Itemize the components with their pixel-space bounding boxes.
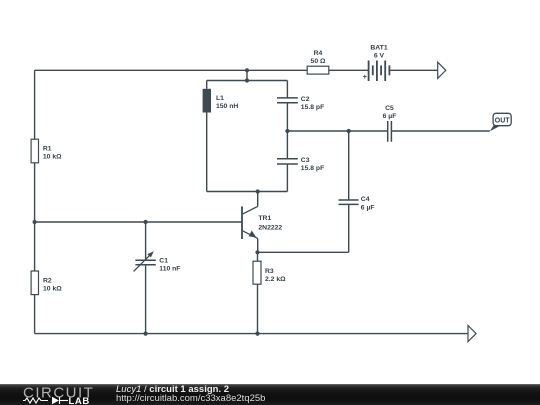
wire top rail (35, 69, 308, 71)
wire C4 riser (348, 131, 350, 200)
wire R3 top lead (257, 252, 259, 261)
wire C1 upper stub (145, 222, 147, 260)
svg-text:R1: R1 (43, 145, 52, 152)
svg-text:150 nH: 150 nH (216, 103, 238, 110)
wire emitter stub (257, 238, 259, 252)
junction top rail / tank (245, 68, 249, 72)
capacitor C3 (277, 157, 324, 172)
svg-text:C4: C4 (361, 196, 370, 203)
wire left rail upper (34, 70, 36, 139)
junction R3 bottom rail (255, 332, 259, 336)
wire collector stub (257, 192, 259, 207)
wire C2 bottom stub (286, 103, 288, 131)
wire battery to flag (389, 69, 437, 71)
svg-text:C5: C5 (385, 105, 394, 112)
resistor R3 (253, 261, 286, 284)
svg-text:6 µF: 6 µF (361, 204, 375, 211)
svg-text:BAT1: BAT1 (370, 45, 387, 52)
svg-text:C1: C1 (159, 257, 168, 264)
resistor R4 (307, 50, 329, 74)
svg-text:15.8 pF: 15.8 pF (301, 165, 324, 172)
junction emitter return (255, 250, 259, 254)
wire L1 bottom stub (206, 113, 208, 192)
svg-text:6 V: 6 V (374, 53, 385, 60)
junction C1 bottom rail (144, 332, 148, 336)
battery BAT1 (363, 45, 390, 81)
svg-text:+: + (363, 72, 368, 81)
wire emitter return (258, 251, 349, 253)
transistor TR1 (242, 206, 282, 239)
svg-text:R3: R3 (265, 268, 274, 275)
junction tank top (245, 78, 249, 82)
svg-text:10 kΩ: 10 kΩ (43, 286, 62, 293)
svg-text:2N2222: 2N2222 (258, 224, 282, 231)
wire tank bottom (207, 191, 288, 193)
svg-text:OUT: OUT (495, 117, 511, 124)
resistor R2 (31, 271, 62, 295)
wire C1 lower stub (145, 265, 147, 334)
wire C4 lower stub (348, 204, 350, 252)
wire left rail middle (34, 163, 36, 271)
svg-text:C3: C3 (301, 157, 310, 164)
junction left rail base (33, 220, 37, 224)
variable capacitor C1 (134, 251, 181, 272)
svg-text:TR1: TR1 (258, 215, 271, 222)
inductor L1 (203, 89, 239, 113)
capacitor C5 (383, 105, 397, 142)
svg-text:C2: C2 (301, 96, 310, 103)
svg-text:10 kΩ: 10 kΩ (43, 153, 62, 160)
wire tank feed stub (246, 70, 248, 80)
svg-text:LAB: LAB (69, 396, 90, 405)
junction C1 base (144, 220, 148, 224)
svg-text:15.8 pF: 15.8 pF (301, 104, 324, 111)
wire C3 top stub (286, 131, 288, 159)
node flag bottom right (468, 326, 476, 342)
svg-text:6 µF: 6 µF (383, 113, 397, 120)
svg-text:L1: L1 (216, 95, 224, 102)
svg-text:R4: R4 (314, 50, 323, 57)
wire bottom rail (35, 333, 468, 335)
node OUT flag (490, 113, 511, 131)
wire R3 bottom lead (257, 284, 259, 333)
wire tank top (207, 80, 288, 82)
junction tank bottom collector (256, 189, 260, 193)
wire C2 top stub (286, 81, 288, 98)
svg-text:R2: R2 (43, 278, 52, 285)
capacitor C2 (277, 96, 324, 111)
capacitor C4 (339, 196, 375, 211)
wire C5 to OUT flag (391, 130, 489, 132)
wire output (287, 130, 387, 132)
wire base (35, 221, 242, 223)
wire C3 bottom stub (286, 164, 288, 192)
svg-text:50 Ω: 50 Ω (311, 58, 326, 65)
svg-text:2.2 kΩ: 2.2 kΩ (265, 276, 286, 283)
wire R4 to battery (329, 69, 369, 71)
svg-text:110 nF: 110 nF (159, 266, 180, 273)
junction C2-C3 output (285, 129, 289, 133)
node flag top right (438, 62, 446, 78)
wire left rail lower (34, 295, 36, 334)
resistor R1 (31, 139, 62, 163)
wire L1 top stub (206, 81, 208, 89)
junction C4 output (347, 129, 351, 133)
